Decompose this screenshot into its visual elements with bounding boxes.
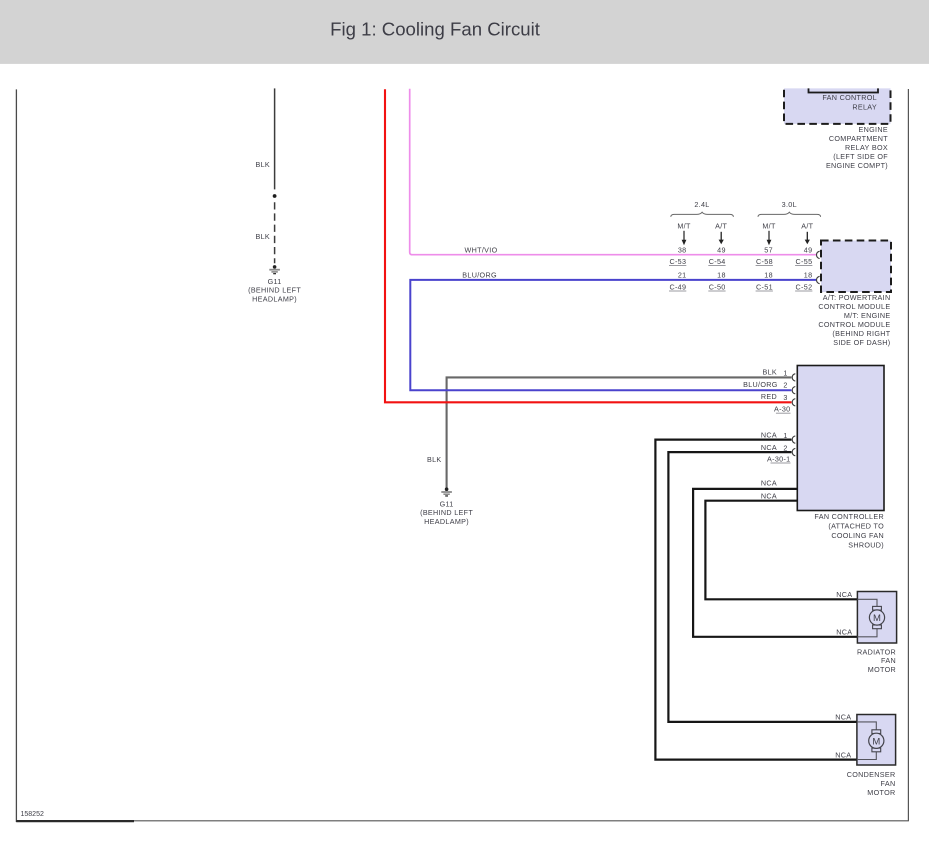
svg-text:M/T: M/T xyxy=(677,222,691,231)
svg-text:A/T: A/T xyxy=(801,222,813,231)
connector A-30-1 xyxy=(767,454,791,463)
arrow A/T 2.4L xyxy=(719,232,724,244)
svg-text:NCA: NCA xyxy=(761,491,777,500)
svg-text:RED: RED xyxy=(761,392,777,401)
module connector arc (WHT/VIO) xyxy=(817,251,820,258)
wire BLK (top left, solid segment) xyxy=(274,88,276,189)
wire NCA 1 (controller to condenser motor, bottom) xyxy=(655,440,857,760)
svg-text:C-49: C-49 xyxy=(669,282,686,291)
arrow M/T 2.4L xyxy=(682,231,687,245)
wire BLU/ORG xyxy=(410,280,816,390)
svg-text:CONTROL MODULE: CONTROL MODULE xyxy=(818,320,890,329)
controller connector arc (NCA pin 2) xyxy=(792,448,795,455)
svg-text:57: 57 xyxy=(764,245,773,254)
svg-text:NCA: NCA xyxy=(836,628,852,637)
svg-text:C-54: C-54 xyxy=(709,257,726,266)
svg-text:MOTOR: MOTOR xyxy=(867,788,895,797)
header bar xyxy=(0,0,929,64)
svg-text:SIDE OF DASH): SIDE OF DASH) xyxy=(833,338,890,347)
connector C-50 xyxy=(708,282,725,291)
svg-text:A-30-1: A-30-1 xyxy=(767,454,791,463)
svg-text:18: 18 xyxy=(764,271,773,280)
svg-text:21: 21 xyxy=(678,271,687,280)
svg-text:MOTOR: MOTOR xyxy=(868,665,896,674)
connector C-49 xyxy=(669,282,686,291)
fan control relay (box, clipped at top) xyxy=(784,66,891,124)
svg-text:49: 49 xyxy=(717,245,726,254)
svg-text:FAN CONTROLLER: FAN CONTROLLER xyxy=(814,512,884,521)
svg-text:M: M xyxy=(872,736,880,747)
arrow A/T 3.0L xyxy=(805,232,810,244)
diagram bottom border (thick segment) xyxy=(16,820,134,822)
svg-text:3: 3 xyxy=(783,393,787,402)
svg-text:C-58: C-58 xyxy=(756,257,773,266)
relay contact box (clipped at top) xyxy=(809,64,879,93)
svg-text:(ATTACHED TO: (ATTACHED TO xyxy=(828,522,884,531)
wire BLK (fan controller to ground) xyxy=(447,377,792,487)
svg-text:C-51: C-51 xyxy=(756,282,773,291)
arrow M/T 3.0L xyxy=(767,231,772,245)
svg-text:(LEFT SIDE OF: (LEFT SIDE OF xyxy=(833,152,888,161)
controller connector arc (RED pin 3) xyxy=(792,399,795,406)
wire WHT/VIO xyxy=(410,89,816,255)
svg-text:1: 1 xyxy=(783,431,787,440)
wire NCA 2 (controller to condenser motor, top) xyxy=(668,452,857,722)
svg-text:HEADLAMP): HEADLAMP) xyxy=(424,517,469,526)
svg-text:(BEHIND RIGHT: (BEHIND RIGHT xyxy=(832,329,890,338)
svg-text:FAN: FAN xyxy=(881,779,896,788)
svg-text:NCA: NCA xyxy=(835,750,851,759)
svg-text:C-52: C-52 xyxy=(796,282,813,291)
svg-text:NCA: NCA xyxy=(761,479,777,488)
svg-text:RELAY: RELAY xyxy=(852,103,877,112)
svg-text:C-53: C-53 xyxy=(669,257,686,266)
svg-text:ENGINE COMPT): ENGINE COMPT) xyxy=(826,161,888,170)
svg-text:CONTROL MODULE: CONTROL MODULE xyxy=(818,302,890,311)
ground G11 (center) xyxy=(441,487,452,496)
svg-text:BLK: BLK xyxy=(255,160,270,169)
svg-text:BLK: BLK xyxy=(762,368,777,377)
svg-text:NCA: NCA xyxy=(835,713,851,722)
svg-text:BLK: BLK xyxy=(255,232,270,241)
junction dot xyxy=(273,194,277,198)
svg-text:18: 18 xyxy=(717,271,726,280)
svg-text:RELAY BOX: RELAY BOX xyxy=(845,143,888,152)
connector C-55 xyxy=(795,257,812,266)
controller connector arc (NCA pin 1) xyxy=(792,436,795,443)
svg-text:G11: G11 xyxy=(268,277,282,286)
brace 2.4L xyxy=(671,212,734,217)
diagram left border xyxy=(15,89,17,822)
wire NCA (controller to radiator motor, top) xyxy=(705,501,857,600)
diagram right border xyxy=(907,89,909,821)
wire BLK (dashed segment to ground) xyxy=(274,202,276,263)
condenser fan motor xyxy=(857,715,896,766)
svg-text:HEADLAMP): HEADLAMP) xyxy=(252,294,297,303)
svg-text:38: 38 xyxy=(678,245,687,254)
diagram bottom border (thin segment) xyxy=(134,820,909,822)
connector C-53 xyxy=(669,257,686,266)
powertrain/engine control module (dashed box) xyxy=(821,241,891,293)
fan controller box xyxy=(797,366,884,511)
svg-text:2: 2 xyxy=(783,444,787,453)
svg-text:C-55: C-55 xyxy=(796,257,813,266)
svg-text:BLK: BLK xyxy=(427,455,442,464)
svg-text:NCA: NCA xyxy=(761,443,777,452)
svg-text:C-50: C-50 xyxy=(709,282,726,291)
svg-text:M/T: M/T xyxy=(762,222,776,231)
brace 3.0L xyxy=(758,212,821,217)
svg-text:M: M xyxy=(873,613,881,624)
svg-text:3.0L: 3.0L xyxy=(782,200,797,209)
svg-text:NCA: NCA xyxy=(836,590,852,599)
svg-text:158252: 158252 xyxy=(21,811,44,818)
svg-text:SHROUD): SHROUD) xyxy=(848,541,884,550)
svg-text:G11: G11 xyxy=(440,499,454,508)
svg-text:A/T: A/T xyxy=(715,222,727,231)
wire NCA (controller to radiator motor, bottom) xyxy=(693,489,857,637)
svg-text:BLU/ORG: BLU/ORG xyxy=(743,380,778,389)
controller connector arc (BLU/ORG pin 2) xyxy=(792,387,795,394)
svg-text:(BEHIND LEFT: (BEHIND LEFT xyxy=(248,286,301,295)
connector C-54 xyxy=(708,257,725,266)
svg-text:COOLING FAN: COOLING FAN xyxy=(831,531,884,540)
svg-text:COMPARTMENT: COMPARTMENT xyxy=(829,134,888,143)
ground G11 (left) xyxy=(269,265,280,274)
svg-text:A-30: A-30 xyxy=(774,405,790,414)
svg-text:M/T: ENGINE: M/T: ENGINE xyxy=(844,311,891,320)
connector C-51 xyxy=(756,282,773,291)
wire RED xyxy=(385,89,792,402)
svg-text:CONDENSER: CONDENSER xyxy=(847,770,896,779)
svg-text:2: 2 xyxy=(783,381,787,390)
connector C-52 xyxy=(795,282,812,291)
radiator fan motor xyxy=(857,592,896,644)
connector C-58 xyxy=(756,257,773,266)
svg-text:NCA: NCA xyxy=(761,430,777,439)
svg-text:(BEHIND LEFT: (BEHIND LEFT xyxy=(420,508,473,517)
svg-text:Fig 1: Cooling Fan Circuit: Fig 1: Cooling Fan Circuit xyxy=(330,18,541,39)
svg-text:49: 49 xyxy=(804,245,813,254)
controller connector arc (BLK pin 1) xyxy=(792,374,795,381)
svg-text:BLU/ORG: BLU/ORG xyxy=(462,270,497,279)
module connector arc (BLU/ORG) xyxy=(817,276,820,283)
svg-text:18: 18 xyxy=(804,271,813,280)
svg-text:FAN CONTROL: FAN CONTROL xyxy=(822,93,877,102)
svg-text:1: 1 xyxy=(783,368,787,377)
svg-text:2.4L: 2.4L xyxy=(694,200,709,209)
svg-text:WHT/VIO: WHT/VIO xyxy=(465,245,498,254)
connector A-30 xyxy=(774,405,790,414)
svg-text:A/T: POWERTRAIN: A/T: POWERTRAIN xyxy=(823,293,891,302)
svg-text:ENGINE: ENGINE xyxy=(859,125,888,134)
